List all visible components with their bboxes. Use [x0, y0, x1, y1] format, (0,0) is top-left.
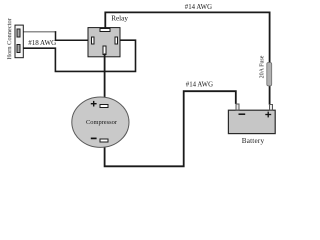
relay pin 87 slot (bottom): [103, 46, 106, 55]
battery BT1 body: [228, 110, 275, 133]
svg-text:#14 AWG: #14 AWG: [186, 82, 213, 89]
wire: relay pin 87 down to compressor +: [104, 54, 106, 107]
compressor + mark: [91, 101, 97, 107]
horn connector terminal slot bottom: [17, 45, 20, 53]
relay pin 30 slot (top): [100, 29, 110, 32]
svg-text:Battery: Battery: [242, 137, 265, 145]
svg-text:#18 AWG: #18 AWG: [28, 39, 56, 47]
fuse F1 20A body: [267, 63, 272, 86]
wire: horn bottom terminal under relay to relay pin 86 (right): [20, 40, 136, 71]
battery + mark: [265, 112, 271, 118]
horn connector terminal slot top: [17, 29, 20, 37]
svg-text:Horn Connector: Horn Connector: [6, 17, 13, 59]
wire: relay pin 30 top, #14 AWG run to fuse and battery +: [105, 12, 269, 104]
battery negative post: [236, 104, 239, 110]
battery positive post: [270, 104, 273, 110]
compressor M1 body: [72, 97, 129, 147]
svg-text:#14 AWG: #14 AWG: [185, 4, 212, 11]
compressor - mark: [91, 137, 97, 139]
svg-text:20A Fuse: 20A Fuse: [259, 55, 265, 78]
svg-text:Relay: Relay: [111, 15, 128, 23]
svg-text:Compressor: Compressor: [86, 119, 118, 126]
wire: battery - via #14 AWG to compressor -: [105, 91, 236, 166]
relay K1 body: [88, 28, 120, 57]
wire: corner down to relay pin 85 (left): [56, 31, 89, 40]
compressor - terminal: [100, 139, 108, 142]
horn connector J1 body: [15, 25, 23, 58]
wire: horn top terminal to corner (gray #18 AWG): [20, 31, 56, 33]
compressor + terminal: [100, 105, 108, 108]
relay pin 86 slot (right): [115, 37, 118, 44]
relay pin 85 slot (left): [92, 37, 95, 44]
battery - mark: [239, 113, 246, 115]
